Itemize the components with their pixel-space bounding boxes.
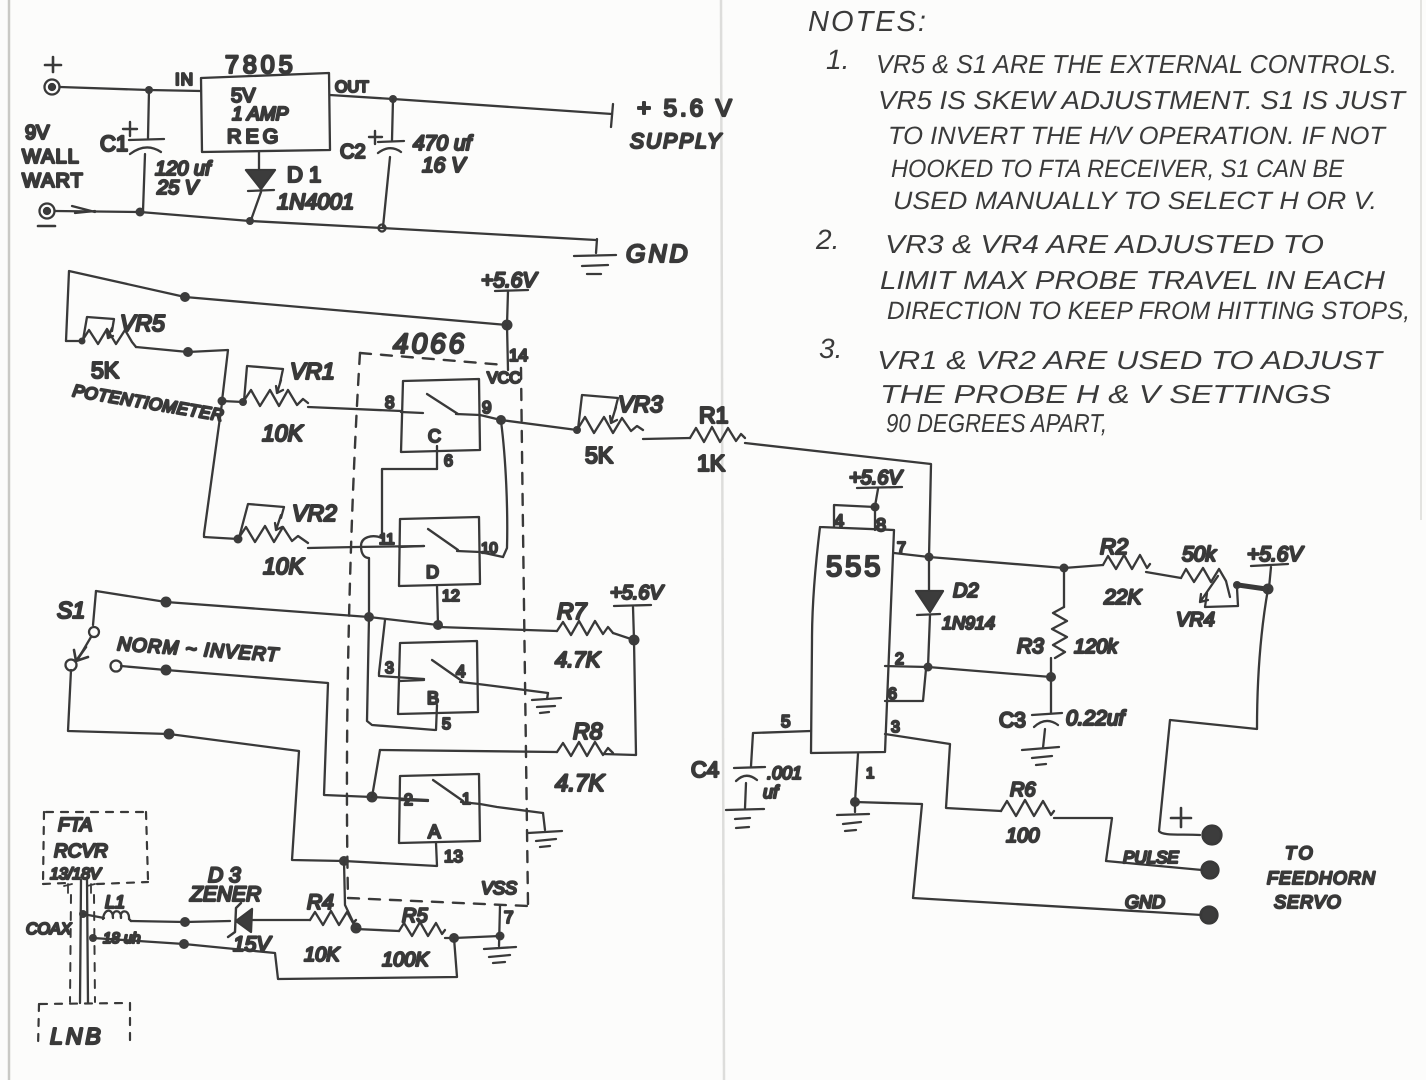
svg-text:10K: 10K [262,420,305,446]
svg-text:3: 3 [385,660,394,677]
svg-text:IN: IN [175,70,194,89]
4066 dashed outline [347,353,528,906]
svg-text:WALL: WALL [22,146,80,168]
wire node down to R4 junction [344,861,356,928]
potentiometer VR5 5K [66,310,225,425]
wire VR2 to 4066 pin 11 [308,546,424,548]
paper left edge [8,0,11,1080]
analog switch C box [401,379,480,452]
svg-text:+5.6V: +5.6V [610,582,664,604]
wire input to 7805 IN [60,87,201,91]
bottom ground wire [55,211,596,240]
svg-text:13: 13 [444,847,463,866]
svg-text:NOTES:: NOTES: [808,6,928,38]
svg-text:SERVO: SERVO [1274,892,1342,912]
FTA RCVR 13/18V label [50,815,108,883]
svg-text:3: 3 [891,719,900,736]
potentiometer VR4 50k [1176,543,1266,631]
ground symbol at switch A [528,813,562,847]
wire S1 bottom throw to pin 13 [68,670,437,866]
svg-text:8: 8 [876,515,886,535]
wire supply node to pins 4 and 8 [834,505,875,530]
wire pin 5 to C4 [751,731,811,766]
timer IC 555 [811,527,894,753]
svg-text:1.: 1. [826,44,849,75]
svg-text:0.22uf: 0.22uf [1066,707,1127,730]
wire R8 left leg down to switch A input node [372,750,380,797]
node junction VR4 / +5.6V [1263,584,1274,595]
svg-text:4: 4 [456,662,465,681]
svg-text:D: D [426,562,439,582]
node junction below switch A [339,856,349,866]
svg-text:VR5 IS SKEW ADJUSTMENT. S1 IS: VR5 IS SKEW ADJUSTMENT. S1 IS JUST [878,85,1407,115]
wire VR5 wiper to VR1/VR2 branch [136,347,228,401]
wire +5.6V node down to R8 right [603,640,636,755]
ground symbol at pin 1 [837,802,869,831]
wire pin 9 node down to pin 10 [501,421,507,557]
paper right edge [1420,0,1422,520]
node junction on return wire [179,939,189,949]
potentiometer VR2 10K [234,500,337,579]
svg-text:C1: C1 [100,131,128,156]
node junction pin 2 / D2 [924,663,933,672]
wire R8 left [380,750,557,752]
svg-text:50k: 50k [1182,543,1217,566]
svg-text:7: 7 [504,908,513,927]
svg-text:R3: R3 [1017,635,1044,658]
+5.6V rail symbol right [1247,543,1304,588]
FTA RCVR dashed box [43,812,148,884]
svg-text:HOOKED TO FTA RECEIVER, S1 CAN: HOOKED TO FTA RECEIVER, S1 CAN BE [891,155,1344,183]
wire pin 12 node to R7 [438,627,557,631]
svg-text:.001: .001 [767,763,802,783]
ground symbol at C4 [726,809,764,828]
resistor R6 100 [1001,779,1054,847]
9V WALL WART label [22,122,84,192]
wire R1 to 555 section [745,443,931,557]
svg-text:R7: R7 [557,598,588,624]
node junction on S1 bottom wire [164,729,175,740]
node junction R7/R8 +5.6V [629,635,640,646]
resistor R3 120k [1017,568,1118,677]
wire +5.6V down to servo + terminal [1159,589,1268,835]
svg-text:1: 1 [462,791,471,808]
svg-text:11: 11 [379,531,395,548]
+5.6V rail symbol for 555 [849,467,903,506]
svg-text:5: 5 [781,712,790,731]
svg-text:COAX: COAX [26,921,73,938]
svg-text:1N914: 1N914 [942,613,995,633]
svg-text:RCVR: RCVR [54,841,108,862]
servo + sign [1171,808,1191,827]
svg-text:WART: WART [22,170,84,192]
svg-text:DIRECTION TO KEEP FROM HITTING: DIRECTION TO KEEP FROM HITTING STOPS, [887,297,1410,325]
wire VR3 to R1 [643,438,690,439]
svg-text:4.7K: 4.7K [555,770,605,797]
svg-text:1 AMP: 1 AMP [232,104,289,125]
svg-text:16 V: 16 V [422,154,467,177]
svg-text:3.: 3. [819,333,842,364]
wire pin 1 to GND terminal [855,802,1202,915]
NOTES text block [808,6,1410,438]
svg-text:+5.6V: +5.6V [1247,543,1304,566]
svg-text:5: 5 [442,716,451,733]
svg-text:S1: S1 [57,597,85,623]
svg-text:R2: R2 [1100,534,1128,559]
node junction VR1 branch [218,397,227,406]
wire pin6 control to S1 node with hop over VR2 wire [361,469,437,730]
svg-text:10K: 10K [263,553,306,579]
svg-text:FTA: FTA [58,815,92,836]
GND terminal [1201,907,1218,924]
node junction at +5.6V / VCC [502,320,513,331]
svg-text:LNB: LNB [50,1023,104,1049]
svg-text:555: 555 [826,551,883,583]
svg-text:10K: 10K [304,944,341,966]
node small circle at C2 bottom [379,225,386,232]
svg-text:TO INVERT THE H/V OPERATION.: TO INVERT THE H/V OPERATION. IF NOT [888,122,1387,150]
node junction on L1 wire [180,917,190,927]
node junction at D1 bottom [246,217,254,225]
node junction R3/C3/pin2 [1046,672,1056,682]
svg-text:VR1: VR1 [290,358,335,384]
svg-text:SUPPLY: SUPPLY [630,130,723,153]
svg-text:12: 12 [442,588,460,605]
svg-text:R5: R5 [402,905,428,927]
wire pin 3 to R6 [885,734,1001,811]
capacitor C1 120uf 25V [100,90,213,211]
svg-text:FEEDHORN: FEEDHORN [1267,868,1376,888]
+5.6 V SUPPLY label [630,95,735,153]
wire pin 6 tied to pin 2 [885,669,926,701]
resistor R8 4.7K [555,718,613,797]
pin 1 stub [855,754,858,802]
svg-text:TO: TO [1285,843,1316,863]
pin 12 stub [437,586,438,625]
wire L1 to D3 [131,921,230,922]
svg-text:7805: 7805 [225,51,297,79]
node junction pin 7 / D2 [925,553,934,562]
svg-text:5K: 5K [91,357,120,383]
svg-text:22K: 22K [1103,586,1142,609]
svg-text:4.7K: 4.7K [555,647,602,672]
potentiometer VR1 10K [222,358,335,446]
wire VCC pin 14 of 4066 [507,325,508,370]
svg-text:C3: C3 [999,709,1026,732]
svg-text:D 1: D 1 [287,162,321,187]
svg-text:2: 2 [404,792,413,809]
wire R6 to PULSE terminal [1054,818,1202,870]
svg-text:VSS: VSS [481,878,517,898]
resistor R1 1K [690,402,745,476]
wire R5 to VSS node [445,936,500,938]
wire pin 7 to R2 [894,553,1064,568]
zener diode D3 15V [189,864,310,956]
diode D1 1N4001 [246,152,354,220]
input terminal + (9V wall wart positive) [45,57,62,95]
svg-text:14: 14 [509,346,528,365]
wire R4 node to R5 [356,929,399,931]
svg-text:90 DEGREES APART,: 90 DEGREES APART, [886,408,1107,438]
wire R2 to VR4 [1146,572,1181,578]
svg-text:VCC: VCC [487,370,521,387]
resistor R4 10K [304,891,356,966]
svg-text:VR3 & VR4 ARE ADJUSTED TO: VR3 & VR4 ARE ADJUSTED TO [885,229,1324,259]
node junction at C1 top [145,86,153,94]
svg-text:USED MANUALLY TO SELECT H OR V: USED MANUALLY TO SELECT H OR V. [893,187,1377,215]
svg-text:THE PROBE H & V SETTINGS: THE PROBE H & V SETTINGS [880,379,1332,409]
node junction coax to return [89,934,97,942]
svg-text:VR4: VR4 [1176,609,1215,631]
svg-text:C2: C2 [340,141,366,163]
svg-text:REG: REG [227,126,282,148]
node junction on VR5 top wire [180,292,190,302]
svg-text:R4: R4 [307,891,334,914]
node junction VR5 output [183,347,193,357]
7805 regulator U1 [201,51,330,152]
node junction at control vertical [364,612,374,622]
node junction R4/R5/pin13 wire [351,923,362,934]
wire S1 middle throw to switch A input [121,666,428,800]
pin 5 stub [436,705,437,730]
wire S1 common to 4066 control node [96,591,438,625]
wire VR1 to 4066 pin 8 [308,407,401,411]
svg-text:D2: D2 [953,580,979,602]
resistor R2 22K [1064,534,1150,609]
resistor R7 4.7K [555,598,613,672]
svg-text:VR3: VR3 [618,391,663,417]
svg-text:1: 1 [866,765,874,782]
svg-text:120k: 120k [1074,636,1118,658]
svg-text:OUT: OUT [335,79,369,96]
ground symbol at switch B [532,693,561,713]
node junction 555 supply [871,503,880,512]
svg-text:1K: 1K [697,450,726,476]
svg-text:R8: R8 [573,718,603,744]
VSS pin 7 wire [499,906,500,946]
diode D2 1N914 [916,557,995,667]
pin 12 node junction [433,620,443,630]
potentiometer VR3 5K [573,391,663,468]
svg-text:4066: 4066 [393,328,467,359]
node junction at switch A input [367,792,378,803]
capacitor C3 0.22uf [999,677,1127,748]
LNB dashed box [38,1003,130,1048]
svg-text:2.: 2. [815,224,839,255]
+5.6V rail symbol for 4066 [481,269,538,325]
svg-text:VR5 & S1 ARE THE EXTERNAL CONT: VR5 & S1 ARE THE EXTERNAL CONTROLS. [876,49,1397,79]
svg-text:9: 9 [482,398,491,417]
svg-text:PULSE: PULSE [1123,848,1179,867]
svg-text:1N4001: 1N4001 [277,189,354,214]
wire branch down to VR2 [204,403,238,539]
wire R7 to +5.6V rail [613,633,634,640]
svg-text:R1: R1 [699,402,728,428]
ground symbol at VSS [484,947,516,963]
svg-text:25 V: 25 V [156,177,200,199]
svg-text:NORM ~ INVERT: NORM ~ INVERT [117,634,280,666]
svg-text:R6: R6 [1010,779,1036,801]
wire pin 10 output [480,552,503,557]
svg-text:ZENER: ZENER [189,883,261,906]
capacitor C4 .001uf [691,757,802,808]
svg-text:470 uf: 470 uf [413,132,474,155]
capacitor C2 470uf 16V [340,99,474,227]
svg-text:100K: 100K [382,949,430,971]
svg-text:C4: C4 [691,757,719,782]
svg-text:VR2: VR2 [292,500,337,526]
analog switch A box [399,774,480,843]
wire VR5 left leg up and top wire to +5.6V node [66,271,507,341]
coax T marks [64,884,95,893]
TO FEEDHORN SERVO label [1267,843,1376,912]
svg-text:GND: GND [1125,892,1165,912]
wire pin 2 to R3/C3 node [885,666,1051,677]
wire control branch to pin 3 [379,620,424,679]
svg-text:+5.6V: +5.6V [481,269,538,292]
+5.6V rail symbol above R7 [610,582,664,640]
svg-text:9V: 9V [25,122,50,144]
analog switch B box [398,641,478,714]
node junction pin 7 / R3 [1060,564,1069,573]
GND terminal and ground symbol [574,239,691,274]
wire switch A output to ground [480,804,543,813]
node junction pin 1 [850,797,860,807]
svg-text:C: C [428,426,441,446]
svg-text:100: 100 [1006,825,1039,847]
svg-text:+5.6V: +5.6V [849,467,903,489]
coax center conductors [80,880,88,1003]
svg-text:VR1 & VR2 ARE USED TO ADJUST: VR1 & VR2 ARE USED TO ADJUST [877,345,1385,375]
node junction at C2 top [389,95,397,103]
wire coax return to R5 right [93,938,457,979]
node junction coax to L1 [79,910,87,918]
node junction pin 9 [496,415,506,425]
svg-text:LIMIT MAX PROBE TRAVEL IN EAC: LIMIT MAX PROBE TRAVEL IN EACH [880,265,1385,295]
node junction R5 right [449,933,459,943]
svg-text:+ 5.6 V: + 5.6 V [637,95,735,122]
tick marks on bottom wire [72,206,95,213]
svg-text:6: 6 [444,453,453,470]
node junction at C1 bottom [136,208,145,217]
svg-text:5K: 5K [585,442,614,468]
wire 7805 OUT to +5.6V supply terminal [330,95,612,114]
svg-text:8: 8 [385,393,394,412]
svg-text:13/18V: 13/18V [50,866,102,883]
PULSE terminal [1202,862,1219,879]
svg-text:L1: L1 [105,892,125,912]
node junction on S1 top wire [161,597,172,608]
coax dashed shield lines [70,895,95,1002]
pin 6 stub [436,446,438,469]
ground symbol at C3 [1022,747,1059,765]
paper fold line [721,0,724,1080]
input terminal - (9V wall wart negative) [38,204,55,227]
+5.6V supply terminal tick [611,104,613,127]
svg-text:POTENTIOMETER: POTENTIOMETER [71,381,225,425]
inductor L1 18uh [83,892,141,947]
resistor R5 100K [382,905,445,971]
wire switch B output to ground [478,684,548,693]
svg-text:A: A [428,822,441,843]
switch S1 NORM-INVERT [57,591,280,672]
svg-text:uf: uf [763,782,780,802]
analog switch D box [399,517,480,586]
servo + terminal [1203,826,1222,845]
svg-text:GND: GND [626,240,691,268]
node junction at VSS [496,932,505,941]
wire switch C/D outputs junction to VR3 [480,415,577,430]
svg-text:VR5: VR5 [120,310,165,336]
node junction on S1 middle wire [161,665,172,676]
